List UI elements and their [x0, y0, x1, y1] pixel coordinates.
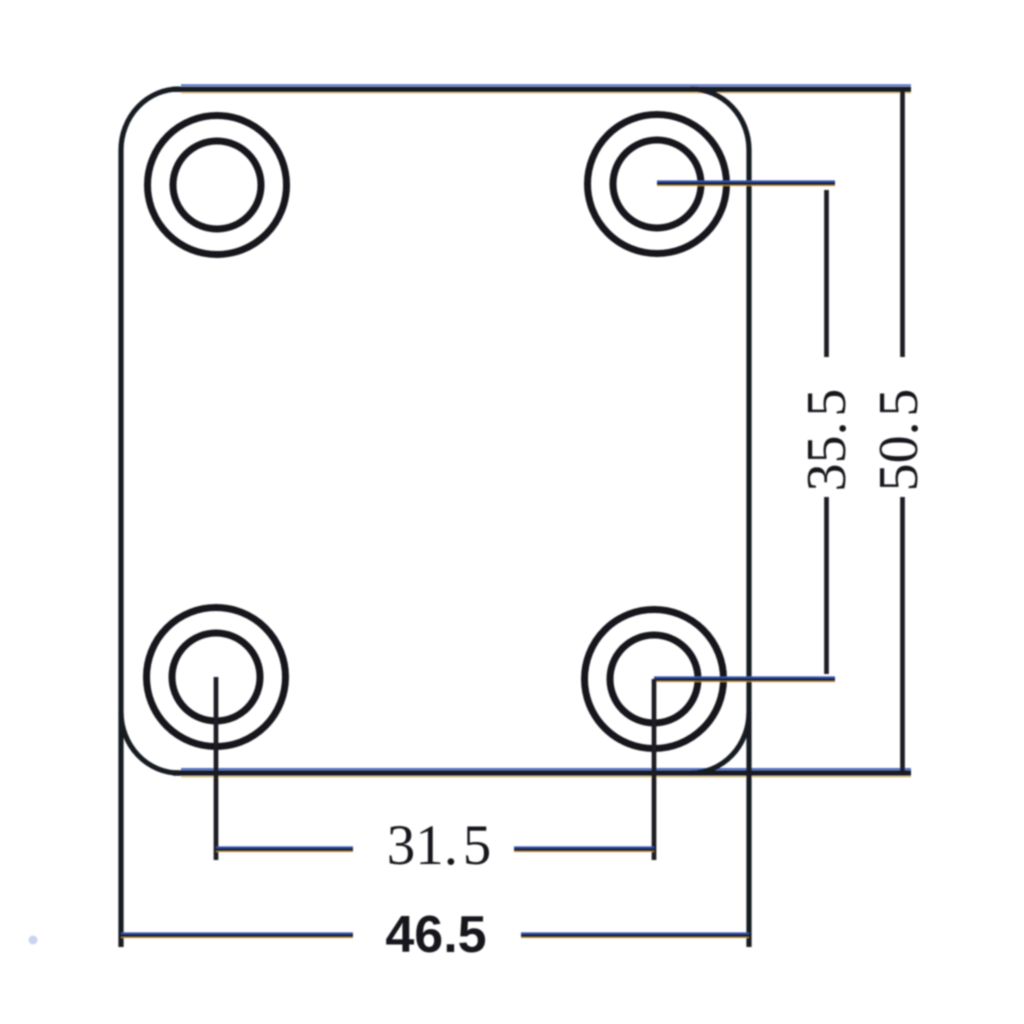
hole bottom-left outer circle — [147, 608, 286, 747]
dimension line 35.5 upper segment — [824, 190, 829, 357]
dimension line 50.5 lower segment — [900, 497, 905, 771]
extension line from bottom-left hole center (31.5) — [214, 677, 219, 860]
dimension line 46.5 right segment — [521, 933, 749, 937]
dimension line 35.5 lower segment — [824, 497, 829, 674]
hole bottom-right outer circle — [585, 610, 724, 749]
scan speck (faint blue dot) — [29, 936, 38, 945]
plate top edge with extension line (50.5 extension) — [173, 85, 911, 93]
svg-text:46.5: 46.5 — [385, 906, 486, 964]
hole bottom-right inner circle — [610, 635, 698, 723]
dimension line 31.5 left segment — [216, 847, 353, 851]
extension line from bottom-right hole center (35.5) — [654, 677, 835, 681]
hole top-left inner circle — [173, 141, 261, 229]
svg-text:31. 5: 31. 5 — [387, 814, 492, 877]
hole top-right outer circle — [588, 115, 727, 254]
svg-text:35. 5: 35. 5 — [796, 389, 858, 492]
dimension line 46.5 left segment — [121, 933, 353, 937]
plate right edge with extension line (46.5 extension) — [746, 150, 751, 947]
plate left edge with extension line (46.5 extension) — [118, 150, 123, 947]
plate corner arc bottom-left — [121, 712, 179, 773]
plate bottom edge with extension line (50.5 extension) — [173, 769, 911, 777]
hole top-right inner circle — [613, 140, 701, 228]
plate corner arc bottom-right — [691, 712, 749, 773]
extension line from top-right hole center (35.5) — [657, 181, 835, 185]
dimension line 50.5 upper segment — [900, 91, 905, 357]
dimension line 31.5 right segment — [514, 847, 654, 851]
plate corner arc top-right — [691, 89, 749, 150]
hole bottom-left inner circle — [172, 633, 260, 721]
plate corner arc top-left — [121, 89, 179, 150]
extension line from bottom-right hole center (31.5) — [652, 679, 657, 860]
hole top-left outer circle — [148, 116, 287, 255]
svg-text:50. 5: 50. 5 — [868, 389, 930, 492]
